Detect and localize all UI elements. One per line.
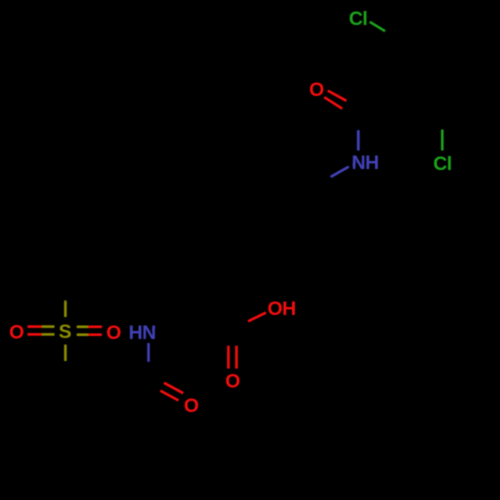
svg-text:NH: NH [352, 152, 379, 174]
svg-text:Cl: Cl [349, 8, 368, 30]
svg-text:O: O [309, 79, 324, 101]
svg-text:O: O [9, 322, 24, 344]
svg-text:O: O [106, 322, 121, 344]
svg-text:OH: OH [268, 298, 296, 320]
svg-text:HN: HN [129, 322, 156, 344]
svg-text:O: O [184, 395, 199, 417]
svg-text:Cl: Cl [433, 153, 452, 175]
svg-text:O: O [225, 371, 240, 393]
svg-text:S: S [59, 321, 72, 343]
